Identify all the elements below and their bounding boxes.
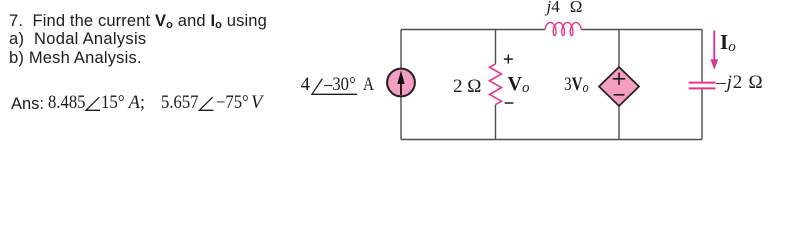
answer value 8.485 magnitude [48,94,85,113]
answer value 15 deg angle text [101,94,125,113]
answer value 5.657 magnitude [161,94,198,113]
current source I1 circle [387,69,415,97]
resistor plus sign [504,55,513,64]
current source I1 arrow [397,71,404,96]
voltage label Vo beside resistor [508,74,530,96]
capacitor C1 plates [689,83,716,89]
current label Io [720,32,736,55]
source label unit A [363,75,374,94]
inductor L1 coil [545,23,581,36]
wire resistor branch upper [495,30,497,64]
angle symbol for 8.485 answer [86,97,100,110]
answer unit A [129,94,145,113]
wire left branch lower [400,96,402,139]
resistor R1 zigzag [490,64,502,105]
dependent source minus sign [614,94,625,96]
wire bottom [401,139,702,141]
wire top left segment [401,29,545,31]
answer unit V [251,94,262,113]
dependent source label 3Vo [564,75,589,96]
problem statement line 1 [9,13,267,31]
wire dependent source branch upper [618,30,620,68]
dependent source plus sign [613,73,625,85]
dependent source U1 diamond [599,67,639,106]
wire top right segment [582,29,703,31]
wire resistor branch lower [495,105,497,140]
wire capacitor branch lower [701,89,703,140]
problem statement line 2 [9,31,146,48]
wire left branch upper [400,30,402,69]
source label 4 angle -30 A : the 4 [301,75,311,94]
problem statement line 3 [9,50,142,67]
answer value -75 deg angle text [216,94,249,113]
resistor value label 2 ohm [453,77,481,96]
wire dependent source branch lower [618,106,620,140]
angle symbol with underline for source label [312,79,357,95]
capacitor value label -j2 ohm [716,73,763,92]
resistor minus sign [505,102,514,104]
wire capacitor branch upper [701,30,703,82]
inductor value label ohm [570,0,583,15]
inductor value label j4 [547,0,560,15]
current Io arrow [710,31,718,70]
source label -30 deg [324,75,356,94]
angle symbol for 5.657 answer [199,97,213,110]
answer label [11,96,44,113]
